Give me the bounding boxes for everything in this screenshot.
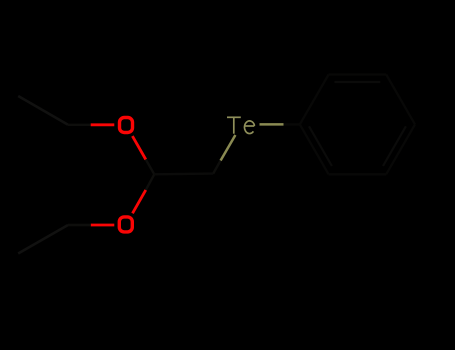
benzene ring (dark carbon on black)	[300, 75, 415, 175]
wire: ring inner double bond lower right	[383, 126, 406, 166]
wire: ring edge V3-V4	[386, 75, 415, 125]
wire: C6-Te bond carbon half	[213, 161, 220, 174]
wire: O1-C1 bond carbon half	[146, 160, 155, 175]
wire: top C-O bond carbon half	[68, 124, 91, 126]
wire: top ethyl C-C bond CH3-CH2	[18, 96, 68, 125]
wire: bottom C-O bond oxygen half (red)	[91, 224, 115, 227]
wire: ring edge V6-V1	[300, 124, 329, 174]
wire: O1-C1 bond oxygen half (red)	[132, 136, 145, 159]
wire: C6-Te bond tellurium half (olive)	[221, 135, 236, 161]
wire: Te-phenyl bond carbon half	[284, 123, 300, 125]
wire: O2-C1 bond carbon half	[146, 174, 155, 190]
wire: ring inner double bond top	[335, 81, 381, 83]
wire: ring edge V5-V6	[329, 173, 387, 175]
Te tellurium label	[227, 117, 254, 133]
wire: bottom ethyl C-C bond CH2-CH3	[18, 225, 68, 254]
wire: ring edge V2-V3	[329, 73, 387, 75]
wire: Te-phenyl bond tellurium half (olive)	[260, 123, 284, 126]
wire: ring inner double bond lower left	[309, 126, 332, 166]
O2 bottom oxygen label	[119, 217, 132, 232]
wire: ring edge V4-V5	[386, 124, 415, 174]
O1 top oxygen label	[120, 118, 133, 133]
wire: O2-C1 bond oxygen half (red)	[133, 190, 146, 213]
wire: ring edge V1-V2	[300, 75, 329, 125]
wire: C1-C6 bond (acetal CH to CH2, horizontal, carbon)	[154, 172, 213, 175]
wire: bottom C-O bond carbon half	[68, 224, 91, 226]
wire: top C-O bond oxygen half (red)	[91, 123, 115, 126]
